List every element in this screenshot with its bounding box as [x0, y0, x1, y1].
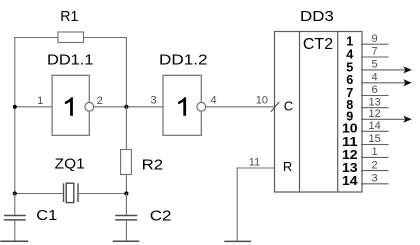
- DD3 output row: weight 8 to pin 13: [346, 96, 388, 112]
- svg-text:R: R: [283, 159, 292, 174]
- svg-text:12: 12: [368, 108, 380, 120]
- wire: C1 to ground: [14, 221, 16, 242]
- wire: R input vertical leg: [236, 168, 238, 241]
- capacitor C2: [116, 216, 137, 220]
- svg-text:C2: C2: [150, 208, 172, 225]
- wire: top feedback left segment: [15, 37, 58, 39]
- DD3 output row: weight 1 to pin 9: [346, 33, 388, 49]
- dynamic input slash at C pin 10: [271, 103, 278, 112]
- svg-text:13: 13: [342, 161, 358, 175]
- node C junction dot: [13, 191, 17, 195]
- DD1.1 inversion bubble pin 2: [85, 102, 94, 111]
- wire: crystal right to node D: [78, 193, 126, 195]
- svg-text:2: 2: [97, 95, 103, 107]
- crystal ZQ1: [64, 183, 79, 202]
- svg-text:12: 12: [342, 148, 358, 162]
- svg-text:R2: R2: [142, 156, 164, 173]
- svg-text:14: 14: [368, 120, 380, 132]
- inverter DD1.1 body: [52, 75, 89, 135]
- svg-text:2: 2: [372, 159, 378, 171]
- DD3 output row: weight 6 to pin 4: [346, 72, 412, 88]
- ground under C2: [114, 240, 139, 242]
- wire: C2 to ground: [125, 221, 127, 242]
- svg-text:DD3: DD3: [300, 8, 334, 25]
- svg-text:5: 5: [372, 59, 378, 71]
- svg-text:R1: R1: [60, 8, 78, 25]
- svg-text:11: 11: [249, 157, 260, 169]
- svg-text:4: 4: [372, 72, 378, 84]
- svg-text:3: 3: [372, 173, 378, 185]
- resistor R1: [58, 32, 84, 43]
- DD3 output row: weight 14 to pin 3: [342, 173, 388, 189]
- DD3 output row: weight 11 to pin 15: [342, 133, 388, 149]
- svg-text:9: 9: [372, 33, 378, 45]
- capacitor C1: [5, 216, 25, 220]
- wire: node D down to C2: [125, 194, 127, 216]
- svg-text:1: 1: [37, 95, 43, 107]
- svg-text:5: 5: [346, 60, 353, 74]
- svg-text:CT2: CT2: [303, 36, 333, 53]
- DD3 divider between CT2 and outputs column: [337, 32, 339, 193]
- svg-text:13: 13: [368, 96, 380, 108]
- wire: DD1.2 out to DD3 C input: [206, 106, 275, 108]
- svg-text:4: 4: [346, 47, 353, 61]
- DD1.2 function symbol 1: [178, 97, 186, 116]
- wire: node C down to C1: [14, 194, 16, 216]
- svg-text:10: 10: [256, 94, 268, 106]
- wire: R2 bottom to node D: [125, 175, 127, 194]
- node A junction dot: [13, 105, 17, 109]
- node B junction dot: [124, 105, 128, 109]
- svg-text:C1: C1: [36, 207, 57, 224]
- svg-text:4: 4: [211, 95, 217, 107]
- DD3 output row: weight 5 to pin 5: [346, 59, 412, 75]
- svg-text:14: 14: [342, 174, 358, 188]
- svg-text:DD1.2: DD1.2: [159, 51, 208, 68]
- wire: node B down to R2: [125, 107, 127, 150]
- wire: feedback drop to node B: [125, 38, 127, 107]
- svg-text:15: 15: [368, 133, 380, 145]
- ground at R input: [225, 240, 251, 242]
- ground under C1: [1, 240, 28, 242]
- DD1.2 inversion bubble pin 4: [197, 102, 206, 111]
- svg-text:6: 6: [372, 84, 378, 96]
- node D junction dot: [124, 191, 128, 195]
- svg-text:1: 1: [372, 146, 378, 158]
- DD3 output row: weight 9 to pin 12: [346, 108, 412, 124]
- svg-text:3: 3: [150, 95, 156, 107]
- wire: left rail: [14, 38, 16, 194]
- DD3 output row: weight 7 to pin 6: [346, 84, 388, 100]
- inverter DD1.2 body: [163, 75, 201, 135]
- DD3 divider between control and CT2 columns: [299, 32, 301, 193]
- resistor R2: [121, 150, 132, 175]
- wire: DD1.1 out through node B to DD1.2 in: [94, 106, 163, 108]
- counter DD3 outer box: [275, 32, 363, 193]
- svg-text:ZQ1: ZQ1: [55, 156, 85, 173]
- DD3 output row: weight 4 to pin 7: [346, 46, 388, 62]
- wire: R input horizontal: [237, 167, 274, 169]
- wire: top feedback right segment: [84, 37, 127, 39]
- svg-text:11: 11: [342, 135, 358, 149]
- DD3 output row: weight 12 to pin 1: [342, 146, 388, 162]
- DD3 output row: weight 10 to pin 14: [342, 120, 388, 136]
- wire: node C to crystal left: [15, 193, 64, 195]
- svg-text:C: C: [284, 98, 293, 113]
- svg-text:10: 10: [342, 122, 358, 136]
- DD3 output row: weight 13 to pin 2: [342, 159, 388, 175]
- wire: node A to DD1.1 input pin 1: [15, 106, 52, 108]
- DD1.1 function symbol 1: [65, 97, 73, 116]
- svg-text:DD1.1: DD1.1: [47, 51, 94, 68]
- svg-text:7: 7: [372, 46, 378, 58]
